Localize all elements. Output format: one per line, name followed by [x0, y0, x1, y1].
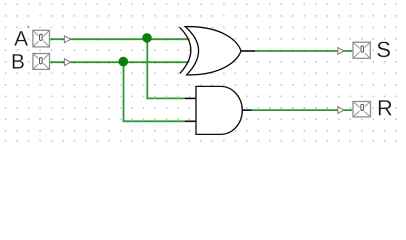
pin B value 0	[38, 57, 43, 65]
pin R value 0	[360, 103, 365, 111]
AND output stub	[242, 109, 251, 111]
wire vertical from junction A	[146, 39, 148, 98]
AND gate U2 input stub top	[185, 97, 197, 99]
wire XOR output to S	[255, 50, 352, 52]
label A	[14, 31, 28, 45]
node origin marker dark dot	[28, 26, 30, 28]
wire AND bottom input horizontal	[123, 120, 185, 122]
pin A value 0	[38, 33, 43, 41]
label S	[377, 42, 390, 58]
AND gate U2 input stub bottom	[185, 120, 197, 122]
XOR gate extra input arc	[180, 27, 191, 73]
arrow on wire B	[64, 59, 70, 66]
arrow on wire A	[64, 36, 70, 43]
wire vertical from junction B	[123, 62, 125, 121]
AND gate U2 body	[196, 86, 242, 134]
junction A	[142, 33, 152, 43]
wire A horizontal	[50, 38, 188, 40]
output pin S	[353, 42, 370, 58]
XOR gate U1 body	[185, 27, 241, 75]
input pin A	[33, 30, 50, 47]
input pin B	[33, 54, 50, 70]
XOR output stub	[241, 50, 255, 52]
wire B horizontal	[50, 61, 188, 63]
arrow before R pin	[338, 107, 344, 114]
label B	[13, 54, 24, 68]
wire AND output to R	[251, 109, 352, 111]
junction B	[119, 57, 129, 67]
output pin R	[353, 102, 371, 117]
arrow before S pin	[338, 48, 344, 55]
wire AND top input horizontal	[146, 97, 184, 99]
label R	[379, 100, 392, 115]
pin S value 0	[360, 45, 365, 53]
